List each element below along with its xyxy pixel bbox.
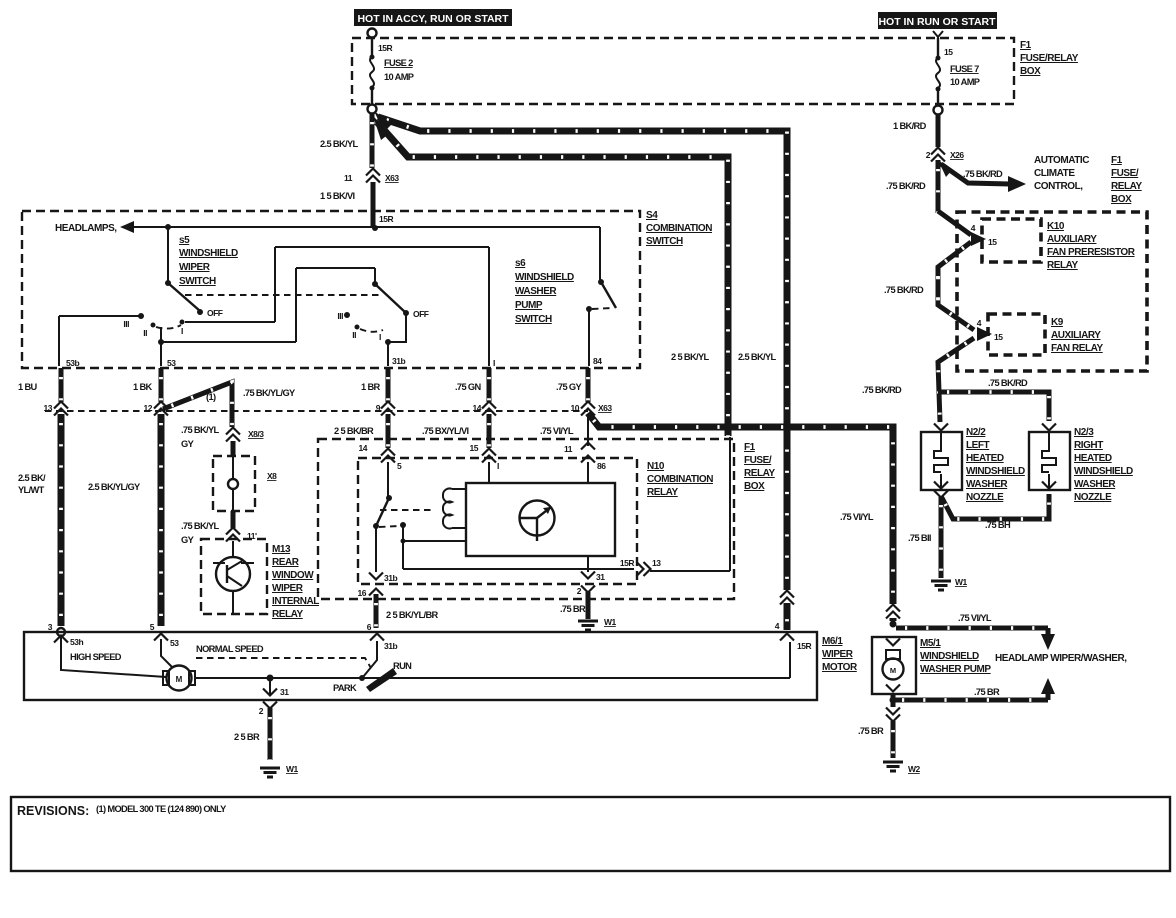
K10 label: [1047, 221, 1136, 271]
svg-text:W1: W1: [604, 617, 617, 627]
F1 label right: [1111, 155, 1143, 205]
svg-text:WIPER: WIPER: [822, 649, 854, 660]
svg-text:M13: M13: [272, 544, 291, 555]
svg-text:.75 BK/RD: .75 BK/RD: [884, 285, 924, 295]
svg-text:F1: F1: [1020, 40, 1032, 51]
svg-text:X8: X8: [267, 471, 277, 481]
branch .75 BR return from headlamp washer: [890, 678, 1056, 704]
svg-text:86: 86: [597, 461, 606, 471]
svg-text:AUXILIARY: AUXILIARY: [1051, 330, 1101, 341]
N10 terminal 15R/13: [620, 437, 730, 576]
svg-text:RIGHT: RIGHT: [1074, 440, 1103, 451]
svg-text:NOZZLE: NOZZLE: [1074, 492, 1112, 503]
svg-text:I: I: [181, 326, 183, 336]
svg-text:FUSE/: FUSE/: [1111, 168, 1139, 179]
svg-text:WINDSHIELD: WINDSHIELD: [515, 272, 574, 283]
svg-text:.75 GN: .75 GN: [455, 382, 481, 392]
svg-text:K10: K10: [1047, 221, 1065, 232]
relay K10: [971, 219, 1041, 262]
svg-text:WASHER: WASHER: [515, 286, 557, 297]
fuse F2: [368, 29, 414, 105]
M5/1 label: [920, 638, 991, 675]
S4 label: [646, 210, 712, 247]
svg-text:2: 2: [926, 150, 931, 160]
svg-text:84: 84: [593, 356, 602, 366]
svg-text:M5/1: M5/1: [920, 638, 941, 649]
svg-text:REAR: REAR: [272, 557, 300, 568]
svg-text:FUSE 7: FUSE 7: [950, 64, 979, 74]
N10 transistor: [520, 501, 555, 542]
svg-text:PUMP: PUMP: [515, 300, 543, 311]
F1 label mid: [744, 442, 776, 492]
svg-text:RELAY: RELAY: [744, 468, 776, 479]
svg-text:RELAY: RELAY: [272, 609, 304, 620]
wiper motor M6/1 box: [24, 632, 817, 700]
svg-text:31b: 31b: [384, 573, 397, 583]
svg-text:RELAY: RELAY: [1047, 260, 1079, 271]
svg-text:WINDSHIELD: WINDSHIELD: [179, 248, 238, 259]
branch to automatic climate control: [938, 155, 1089, 192]
svg-text:2: 2: [577, 586, 582, 596]
svg-text:.75 BK/RD: .75 BK/RD: [988, 378, 1028, 388]
terminal under fuse 2: [368, 105, 377, 114]
middle wiper contact set: [337, 284, 428, 366]
svg-text:31: 31: [596, 572, 605, 582]
svg-text:WASHER PUMP: WASHER PUMP: [920, 664, 991, 675]
wire 2.5 BK/YL to N10 15R: [373, 116, 728, 436]
svg-text:III: III: [123, 319, 129, 329]
wire 1.5 BK/VI fuse2 to S4: [320, 113, 399, 226]
wire 31b down / 1 BR: [334, 368, 395, 448]
combination switch S4 box: [22, 211, 640, 368]
K9 label: [1051, 317, 1103, 354]
fuse F7: [933, 31, 980, 104]
svg-text:BOX: BOX: [1111, 194, 1132, 205]
variant wire (1) .75 BK/YL/GY: [163, 382, 296, 456]
fuse/relay box F1 (top): [352, 38, 1014, 104]
svg-text:2 5 BK/BR: 2 5 BK/BR: [334, 426, 374, 436]
wire .75 BR pump to ground W2: [858, 694, 921, 774]
svg-text:CONTROL,: CONTROL,: [1034, 181, 1083, 192]
M6/1 label: [822, 636, 858, 673]
svg-text:I: I: [379, 332, 381, 342]
wire .75 VI/YL long run to washer pump: [588, 413, 893, 621]
wire 53 down / 1 BK: [88, 368, 168, 626]
svg-text:FUSE 2: FUSE 2: [384, 58, 413, 68]
svg-text:16: 16: [358, 588, 367, 598]
svg-text:.75 BK/RD: .75 BK/RD: [886, 181, 926, 191]
X26 connector and climate control branch: [893, 114, 964, 162]
svg-text:11: 11: [344, 173, 353, 183]
svg-text:5: 5: [397, 461, 402, 471]
svg-text:HEATED: HEATED: [966, 453, 1004, 464]
svg-text:.75 BR: .75 BR: [560, 604, 586, 614]
svg-text:53: 53: [170, 638, 179, 648]
svg-text:.75 BK/YL: .75 BK/YL: [181, 425, 220, 435]
svg-text:10: 10: [571, 403, 580, 413]
wire .75 BR nozzle to ground: [908, 496, 968, 590]
svg-text:15: 15: [994, 332, 1003, 342]
svg-text:2: 2: [259, 706, 264, 716]
svg-text:.75 BK/YL/GY: .75 BK/YL/GY: [243, 388, 296, 398]
svg-text:15R: 15R: [379, 214, 393, 224]
svg-text:X63: X63: [385, 173, 399, 183]
svg-text:1 BU: 1 BU: [18, 382, 38, 392]
svg-text:2.5 BK/YL/GY: 2.5 BK/YL/GY: [88, 482, 141, 492]
svg-text:K9: K9: [1051, 317, 1064, 328]
N2/3 label: [1074, 427, 1133, 503]
svg-text:I: I: [493, 358, 495, 368]
svg-text:OFF: OFF: [413, 309, 429, 319]
svg-text:WASHER: WASHER: [1074, 479, 1116, 490]
svg-text:X8/3: X8/3: [248, 429, 264, 439]
motor symbol: [163, 666, 195, 691]
wiper switch S5: [123, 227, 238, 338]
svg-text:2.5 BK/: 2.5 BK/: [18, 473, 46, 483]
svg-text:1 BK: 1 BK: [133, 382, 153, 392]
svg-text:X63: X63: [598, 403, 612, 413]
svg-text:.75 VI/YL: .75 VI/YL: [840, 512, 874, 522]
svg-text:SWITCH: SWITCH: [179, 276, 216, 287]
svg-text:I: I: [497, 461, 499, 471]
svg-text:F1: F1: [744, 442, 756, 453]
wire .75 BK/RD zigzag: [862, 211, 974, 422]
svg-text:10 AMP: 10 AMP: [384, 72, 414, 82]
svg-text:WIPER: WIPER: [179, 262, 211, 273]
svg-text:N2/3: N2/3: [1074, 427, 1094, 438]
svg-text:15R: 15R: [378, 43, 392, 53]
svg-text:2.5 BK/YL: 2.5 BK/YL: [738, 352, 777, 362]
svg-text:S4: S4: [646, 210, 658, 221]
svg-text:WASHER: WASHER: [966, 479, 1008, 490]
svg-text:NOZZLE: NOZZLE: [966, 492, 1004, 503]
svg-text:4: 4: [775, 621, 780, 631]
svg-text:W2: W2: [908, 764, 921, 774]
wire I down / .75 GN: [422, 368, 496, 448]
F1 label: [1020, 40, 1079, 77]
svg-text:1 BR: 1 BR: [361, 382, 381, 392]
N10 terminal 15/I: [470, 443, 499, 483]
svg-text:FAN PRERESISTOR: FAN PRERESISTOR: [1047, 247, 1136, 258]
svg-text:1 BK/RD: 1 BK/RD: [893, 121, 927, 131]
wire III to 53b: [59, 316, 141, 368]
svg-text:14: 14: [359, 443, 368, 453]
svg-text:RELAY: RELAY: [647, 487, 679, 498]
svg-text:HIGH SPEED: HIGH SPEED: [70, 652, 122, 662]
svg-text:.75 BH: .75 BH: [985, 520, 1011, 530]
svg-text:.75 BK/RD: .75 BK/RD: [862, 385, 902, 395]
wire pivot to 53: [158, 327, 176, 368]
svg-text:.75 BR: .75 BR: [858, 726, 884, 736]
svg-text:1 5 BK/VI: 1 5 BK/VI: [320, 191, 355, 201]
svg-text:3: 3: [48, 622, 53, 632]
svg-text:15: 15: [944, 47, 953, 57]
svg-text:FUSE/: FUSE/: [744, 455, 772, 466]
fuse/relay box F1 (N10): [318, 439, 734, 599]
svg-text:N2/2: N2/2: [966, 427, 986, 438]
svg-text:15: 15: [470, 443, 479, 453]
svg-text:10 AMP: 10 AMP: [950, 77, 980, 87]
svg-text:COMBINATION: COMBINATION: [647, 474, 713, 485]
svg-text:F1: F1: [1111, 155, 1123, 166]
relay M13: [201, 539, 267, 614]
svg-text:HEADLAMP WIPER/WASHER,: HEADLAMP WIPER/WASHER,: [995, 653, 1127, 664]
svg-text:s5: s5: [179, 235, 190, 246]
svg-text:LEFT: LEFT: [966, 440, 990, 451]
motor terminal 5: [150, 622, 179, 648]
N10 terminal 31b/16: [358, 526, 439, 628]
svg-text:(1): (1): [206, 392, 216, 402]
svg-text:WINDSHIELD: WINDSHIELD: [966, 466, 1025, 477]
svg-text:MOTOR: MOTOR: [822, 662, 858, 673]
svg-text:SWITCH: SWITCH: [646, 236, 683, 247]
svg-text:FUSE/RELAY: FUSE/RELAY: [1020, 53, 1079, 64]
motor terminal 4: [775, 590, 812, 651]
svg-text:BOX: BOX: [1020, 66, 1041, 77]
svg-text:AUXILIARY: AUXILIARY: [1047, 234, 1097, 245]
svg-text:GY: GY: [181, 535, 195, 545]
svg-text:BOX: BOX: [744, 481, 765, 492]
svg-text:M: M: [890, 666, 896, 675]
svg-text:W1: W1: [286, 764, 299, 774]
svg-text:WINDSHIELD: WINDSHIELD: [920, 651, 979, 662]
svg-text:II: II: [352, 330, 356, 340]
svg-text:WINDSHIELD: WINDSHIELD: [1074, 466, 1133, 477]
svg-text:.75 BII: .75 BII: [908, 533, 931, 543]
svg-text:15: 15: [988, 237, 997, 247]
relay N10 box: [358, 458, 637, 584]
svg-text:N10: N10: [647, 461, 665, 472]
svg-text:CLIMATE: CLIMATE: [1034, 168, 1075, 179]
hot in accy label box: [354, 9, 512, 26]
N10 internal switch: [373, 495, 634, 569]
svg-text:(1) MODEL 300 TE (124 890) ONL: (1) MODEL 300 TE (124 890) ONLY: [96, 804, 227, 814]
branch .75 VI/YL to headlamp washer: [896, 613, 1127, 664]
terminal 31/2 ground wire: [234, 678, 299, 777]
wire 84 down / .75 GY: [540, 368, 612, 436]
svg-text:.75 VI/YL: .75 VI/YL: [958, 613, 992, 623]
N10 relay body: [443, 483, 615, 556]
svg-text:HOT IN ACCY, RUN OR START: HOT IN ACCY, RUN OR START: [357, 13, 509, 25]
svg-text:NORMAL SPEED: NORMAL SPEED: [196, 644, 264, 654]
svg-text:OFF: OFF: [207, 308, 223, 318]
svg-text:RUN: RUN: [393, 661, 412, 671]
svg-text:SWITCH: SWITCH: [515, 314, 552, 325]
svg-text:.75 BK/YL: .75 BK/YL: [181, 521, 220, 531]
svg-text:RELAY: RELAY: [1111, 181, 1143, 192]
svg-text:2.5 BK/YL: 2.5 BK/YL: [320, 139, 359, 149]
svg-text:s6: s6: [515, 258, 526, 269]
svg-text:AUTOMATIC: AUTOMATIC: [1034, 155, 1089, 166]
fuse/relay box (K10/K9): [957, 212, 1147, 371]
branch to right nozzle: [938, 378, 1049, 421]
svg-text:53b: 53b: [66, 358, 79, 368]
nozzle N2/3: [1029, 424, 1070, 491]
revisions box: [11, 797, 1170, 871]
svg-text:GY: GY: [181, 439, 195, 449]
svg-text:31b: 31b: [384, 641, 397, 651]
svg-text:2 5 BK/YL/BR: 2 5 BK/YL/BR: [386, 610, 439, 620]
hot in run label box: [878, 12, 997, 29]
svg-text:15R: 15R: [620, 558, 634, 568]
svg-text:6: 6: [367, 622, 372, 632]
svg-text:31: 31: [280, 687, 289, 697]
wire .75 BR between nozzles: [934, 491, 1049, 531]
mechanical link dashes: [185, 294, 380, 296]
svg-text:53: 53: [167, 358, 176, 368]
svg-text:.75 BX/YL/VI: .75 BX/YL/VI: [422, 426, 469, 436]
M13 label: [272, 544, 319, 620]
svg-text:14: 14: [473, 403, 482, 413]
svg-text:III: III: [337, 311, 343, 321]
N10 terminal 31/2 to ground: [560, 556, 617, 630]
svg-text:2 5 BR: 2 5 BR: [234, 732, 260, 742]
relay K9: [977, 314, 1045, 355]
N10 terminal 14/5: [359, 443, 402, 498]
svg-text:.75 VI/YL: .75 VI/YL: [540, 426, 574, 436]
svg-text:31b: 31b: [392, 356, 405, 366]
svg-text:.75 BR: .75 BR: [974, 687, 1000, 697]
svg-text:INTERNAL: INTERNAL: [272, 596, 319, 607]
nozzle N2/2: [921, 424, 962, 491]
svg-text:M6/1: M6/1: [822, 636, 843, 647]
wire 53b down / 1 BU: [18, 368, 68, 626]
motor internal wiring: [61, 636, 790, 693]
wire contact I to terminal I: [185, 247, 495, 368]
svg-text:HOT IN RUN OR START: HOT IN RUN OR START: [878, 16, 996, 28]
svg-text:53h: 53h: [70, 637, 83, 647]
svg-text:15R: 15R: [797, 641, 811, 651]
svg-text:4: 4: [977, 318, 982, 328]
svg-text:.75 BK/RD: .75 BK/RD: [963, 169, 1003, 179]
svg-text:HEADLAMPS,: HEADLAMPS,: [55, 223, 117, 234]
wire .75 BK/RD down right side: [886, 160, 938, 213]
washer pump M5/1: [872, 604, 916, 694]
svg-text:13: 13: [652, 558, 661, 568]
motor terminal 6: [367, 622, 398, 651]
svg-text:11: 11: [564, 444, 573, 454]
svg-text:HEATED: HEATED: [1074, 453, 1112, 464]
svg-text:WINDOW: WINDOW: [272, 570, 314, 581]
svg-text:M: M: [176, 675, 183, 684]
branch down to N10 t11: [564, 415, 606, 483]
svg-text:PARK: PARK: [333, 683, 357, 693]
svg-text:WIPER: WIPER: [272, 583, 304, 594]
headlamps feed wire: [55, 221, 600, 282]
svg-text:5: 5: [150, 622, 155, 632]
svg-text:REVISIONS:: REVISIONS:: [17, 804, 89, 818]
N2/2 label: [966, 427, 1025, 503]
svg-text:FAN RELAY: FAN RELAY: [1051, 343, 1103, 354]
terminal under fuse 7: [934, 106, 943, 115]
svg-text:.75 GY: .75 GY: [556, 382, 582, 392]
svg-text:2 5 BK/YL: 2 5 BK/YL: [671, 352, 710, 362]
svg-text:X26: X26: [950, 150, 964, 160]
washer pump switch S6: [515, 258, 616, 366]
svg-text:COMBINATION: COMBINATION: [646, 223, 712, 234]
svg-text:YL/WT: YL/WT: [18, 485, 45, 495]
svg-text:W1: W1: [955, 577, 968, 587]
wire 2.5 BK/YL to motor terminal 4: [374, 111, 787, 630]
svg-text:II: II: [143, 328, 147, 338]
N10 label: [647, 461, 713, 498]
motor terminal 3: [48, 622, 84, 647]
svg-text:4: 4: [971, 223, 976, 233]
X63 connector dashed line: [45, 410, 588, 412]
wire X8 to M13: [181, 511, 257, 545]
connector X8: [213, 456, 277, 511]
wire to middle contact: [161, 268, 378, 342]
